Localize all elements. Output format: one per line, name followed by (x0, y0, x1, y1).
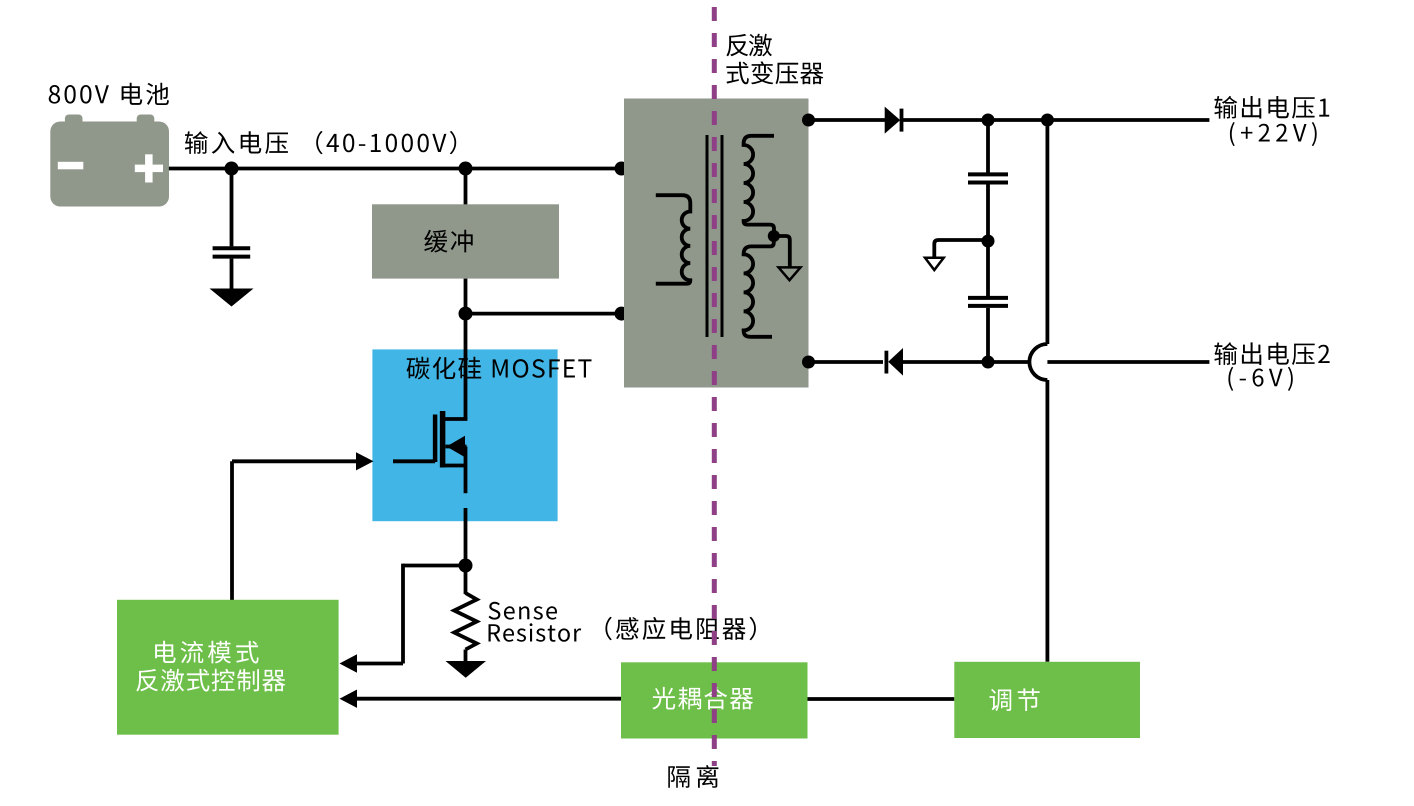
block flyback transformer (gray) (624, 99, 809, 388)
label (+22V) (1230, 122, 1317, 146)
battery 800V body (50, 122, 169, 207)
battery 800V terminals (posts) (65, 115, 83, 129)
wire current-sense feedback (403, 564, 466, 568)
node output1 regulation junction (1041, 114, 1054, 127)
label Resistor (489, 623, 582, 642)
arrow into controller (current sense) (340, 654, 358, 672)
arrow into controller (feedback) (340, 690, 358, 708)
label （感应电阻器） (605, 617, 756, 640)
transformer T1 secondary winding (upper) (744, 136, 774, 236)
label 光耦合器 (652, 687, 753, 710)
wire midpoint to ground stub (934, 240, 988, 258)
wire midpoint to capacitor C2 (986, 241, 990, 296)
transistor Q1 SiC MOSFET symbol (440, 411, 446, 468)
node drain junction (459, 307, 473, 321)
wire sense resistor to ground (464, 650, 468, 663)
node source-sense junction (459, 559, 473, 573)
block optocoupler 光耦合器 (621, 662, 808, 738)
wire gate drive (controller to MOSFET) (230, 461, 234, 600)
ground (sense resistor, filled arrow) (446, 661, 487, 678)
wire optocoupler to regulator (808, 697, 955, 701)
block SiC MOSFET (blue) (372, 349, 557, 521)
resistor R_sense (zigzag) (454, 593, 477, 650)
block snubber 缓冲 (372, 204, 559, 278)
wire optocoupler to controller (357, 697, 621, 701)
label 反激式控制器 (136, 669, 285, 692)
capacitor C2 (output2) (968, 296, 1008, 300)
wire output2 (diode to label) (903, 360, 1209, 364)
wire C2 to output2 rail (986, 308, 990, 362)
wire MOSFET source (lower, after gap) (464, 508, 468, 566)
wire drain junction to transformer primary (466, 312, 622, 316)
node output2 capacitor junction (982, 356, 995, 369)
capacitor C_in (213, 246, 251, 250)
node transformer center tap (768, 230, 780, 242)
node transformer secondary top terminal (802, 114, 815, 127)
label 输出电压2 (1214, 342, 1329, 365)
wire output1 (diode to label) (900, 118, 1209, 122)
wire regulation sense (node to hop) (1046, 120, 1050, 344)
node transformer primary bottom terminal (615, 307, 629, 321)
ground (input, filled arrow) (210, 289, 254, 307)
node output1 capacitor junction (982, 114, 995, 127)
wire MOSFET source (upper) (464, 447, 468, 494)
arrow into MOSFET gate (356, 452, 374, 470)
diode D2 (output2) (885, 351, 889, 374)
wire MOSFET gate lead (393, 459, 435, 463)
label 输出电压1 (1214, 96, 1329, 119)
block regulator 调节 (954, 662, 1140, 738)
node output capacitor midpoint (982, 235, 995, 248)
node input-cap junction (225, 162, 239, 176)
transformer T1 secondary winding (lower) (744, 236, 774, 337)
wire input capacitor to ground (230, 259, 234, 289)
label 缓冲 (424, 230, 472, 253)
ground (center tap, open arrow) (779, 267, 801, 280)
diode D1 (output1) (885, 107, 901, 134)
label 800V 电池 (49, 83, 169, 105)
capacitor C1 (output1) (968, 172, 1008, 176)
battery plus terminal mark (135, 165, 163, 173)
wire output2 (transformer to diode) (809, 360, 884, 364)
label 隔离 (668, 765, 718, 788)
wire center tap to ground (774, 236, 790, 267)
wire node to capacitor C1 (986, 120, 990, 173)
label 反激 (line 1) (726, 34, 772, 57)
block current-mode flyback controller 电流模式反激式控制器 (117, 600, 339, 735)
label 电流模式 (155, 641, 259, 664)
label Sense (489, 602, 558, 620)
wire C1 to midpoint node (986, 184, 990, 241)
node snubber-top junction (459, 162, 473, 176)
node transformer primary top terminal (615, 162, 629, 176)
wire bus to snubber (464, 169, 468, 205)
label 输入电压 （40-1000V） (185, 131, 456, 154)
label (-6V) (1228, 367, 1292, 391)
wire regulation sense (hop to regulator) (1046, 380, 1050, 662)
label 调节 (990, 688, 1040, 711)
wire source junction to sense resistor (464, 566, 468, 595)
ground (output midpoint, open arrow) (925, 258, 944, 270)
battery minus terminal mark (58, 162, 84, 170)
wire snubber to drain junction (464, 279, 468, 314)
transformer T1 core (706, 135, 709, 337)
node transformer secondary bottom terminal (802, 356, 815, 369)
wire output1 (transformer to diode) (809, 118, 886, 122)
label 碳化硅 MOSFET (407, 357, 592, 380)
wire snubber junction to MOSFET drain (464, 314, 468, 419)
isolation boundary (dashed) (712, 7, 717, 766)
wire node to input capacitor (230, 169, 234, 247)
wire input bus (battery to transformer) (169, 167, 623, 171)
label 式变压器 (line 2) (726, 61, 823, 84)
transformer T1 primary winding (656, 195, 691, 284)
wire hop over output2 (crossing) (1029, 344, 1047, 380)
